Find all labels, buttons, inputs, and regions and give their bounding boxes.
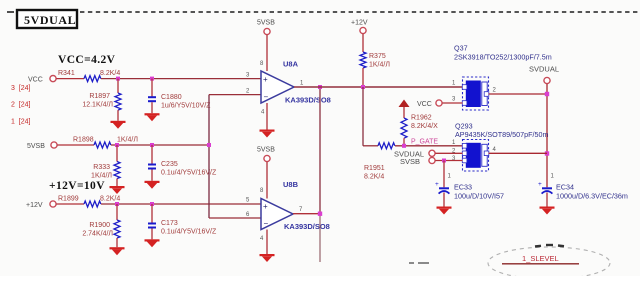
- svg-text:+: +: [538, 181, 542, 188]
- node bus top junction: [318, 85, 322, 89]
- node C235 junction: [150, 143, 154, 147]
- svg-text:100u/D/10V/I57: 100u/D/10V/I57: [454, 192, 504, 201]
- svg-text:R375: R375: [369, 53, 386, 60]
- op-amp U8A: [261, 60, 331, 105]
- svg-text:R1899: R1899: [58, 196, 79, 203]
- svg-text:P_GATE: P_GATE: [411, 139, 438, 146]
- wire row3 to U8B pin5: [101, 203, 261, 205]
- svg-text:R1900: R1900: [89, 222, 110, 229]
- resistor R375: [360, 34, 390, 87]
- svg-text:12.1K/4/Л: 12.1K/4/Л: [82, 102, 113, 109]
- svg-text:C235: C235: [161, 161, 178, 168]
- capacitor EC33: [435, 161, 504, 207]
- wire U8B pin6: [209, 217, 261, 219]
- transistor Q293: [455, 122, 549, 172]
- port SVDUAL: [529, 65, 559, 84]
- dashed highlight ellipse: [488, 247, 610, 279]
- wire stub going off sheet bottom: [319, 214, 321, 262]
- svg-text:1K/4/Л: 1K/4/Л: [117, 137, 138, 144]
- resistor R1900: [82, 204, 120, 247]
- wire U8B pin7 output: [293, 213, 320, 215]
- wire VCC row to U8A pin3: [101, 78, 261, 80]
- svg-text:+: +: [263, 75, 268, 84]
- wire U8A pin2: [209, 94, 261, 96]
- wire Q293 pin4: [489, 152, 548, 154]
- wire Q37 pin2 to SVDUAL: [489, 93, 548, 95]
- svg-text:−: −: [264, 93, 269, 102]
- node R1897 junction: [116, 77, 120, 81]
- svg-text:−: −: [264, 219, 269, 228]
- resistor R1899: [58, 196, 120, 208]
- ground below R1900: [110, 247, 125, 249]
- node C173 junction: [150, 202, 154, 206]
- svg-text:+12V: +12V: [351, 20, 368, 27]
- capacitor C235: [148, 145, 217, 181]
- wire SVDUAL vertical: [546, 84, 548, 188]
- node C1880 junction: [150, 77, 154, 81]
- wire U8B pin4: [266, 230, 268, 255]
- svg-text:8.2K/4/X: 8.2K/4/X: [411, 123, 438, 130]
- svg-text:0.1u/4/Y5V/16V/Z: 0.1u/4/Y5V/16V/Z: [161, 229, 217, 236]
- svg-text:R1951: R1951: [364, 165, 385, 172]
- svg-text:5VSB: 5VSB: [257, 20, 275, 27]
- port +12V (row 3): [26, 201, 56, 209]
- svg-text:C173: C173: [161, 220, 178, 227]
- svg-text:VCC: VCC: [28, 77, 43, 84]
- wire output bus vertical x=320: [319, 87, 321, 214]
- wire P_GATE segment: [363, 145, 378, 147]
- wire comparator output line to Q37: [294, 86, 463, 88]
- svg-text:1K/4/Л: 1K/4/Л: [91, 173, 112, 180]
- wire U8B pin8 supply: [266, 162, 268, 199]
- capacitor EC34: [538, 174, 628, 207]
- ground below EC34: [540, 207, 555, 209]
- svg-text:1K/4/Л: 1K/4/Л: [369, 62, 390, 69]
- wire row2 to vertical: [111, 144, 209, 146]
- title box 5VDUAL: [17, 10, 77, 28]
- svg-text:U8A: U8A: [283, 60, 299, 69]
- ground below C235: [145, 181, 160, 183]
- svg-text:R1962: R1962: [411, 115, 432, 122]
- resistor R1962: [401, 115, 438, 146]
- transistor Q37: [454, 44, 552, 111]
- resistor R1898: [73, 137, 138, 149]
- port 5VSB (row 2): [27, 142, 57, 150]
- bold dashes on ellipse top: [535, 245, 564, 247]
- svg-text:8.2K/4: 8.2K/4: [100, 196, 120, 203]
- ground below C173: [145, 239, 160, 241]
- svg-text:8.2K/4: 8.2K/4: [364, 174, 384, 181]
- wire SVSB to Q293 pin3: [435, 160, 462, 162]
- node U8B output junction: [318, 212, 322, 216]
- svg-text:+12V=10V: +12V=10V: [49, 180, 105, 192]
- stray watermark marks bottom middle: [409, 262, 429, 264]
- svg-text:R1897: R1897: [89, 93, 110, 100]
- svg-text:KA393D/SO8: KA393D/SO8: [284, 222, 330, 231]
- svg-text:8.2K/4: 8.2K/4: [100, 70, 120, 77]
- svg-text:3 [24]: 3 [24]: [11, 85, 31, 92]
- svg-text:EC34: EC34: [556, 183, 574, 192]
- svg-text:SVSB: SVSB: [400, 157, 420, 166]
- port VCC at Q37 pin3: [417, 100, 442, 108]
- svg-text:R341: R341: [58, 70, 75, 77]
- port SVSB at Q293 pin3: [400, 157, 435, 166]
- wire +12V row: [56, 203, 84, 205]
- svg-text:+: +: [263, 202, 268, 211]
- port +12V above R375: [351, 20, 368, 34]
- wire SVDUAL to Q293 pin2: [435, 152, 462, 154]
- wire vertical x=363 to P_GATE line: [362, 87, 364, 146]
- svg-text:2.74K/4/Л: 2.74K/4/Л: [82, 231, 113, 238]
- svg-text:SVDUAL: SVDUAL: [529, 65, 559, 74]
- svg-text:+: +: [435, 181, 439, 188]
- svg-text:5VSB: 5VSB: [257, 147, 275, 154]
- svg-text:AP9435K/SOT89/507pF/50m: AP9435K/SOT89/507pF/50m: [455, 130, 549, 139]
- node SVDUAL/Q37 junction: [545, 92, 549, 96]
- node SVDUAL/Q293 junction: [545, 151, 549, 155]
- ground below R333: [110, 186, 125, 188]
- svg-text:1000u/D/6.3V/EC/36m: 1000u/D/6.3V/EC/36m: [556, 192, 628, 201]
- wire U8A pin8 supply: [266, 35, 268, 71]
- op-amp U8B: [261, 180, 330, 231]
- ground below R1897: [111, 121, 126, 123]
- svg-text:KA393D/SO8: KA393D/SO8: [285, 96, 331, 105]
- wire VCC row: [56, 78, 84, 80]
- svg-text:5VDUAL: 5VDUAL: [24, 13, 76, 27]
- svg-text:U8B: U8B: [283, 180, 299, 189]
- svg-text:R333: R333: [93, 164, 110, 171]
- ground below U8A: [260, 130, 275, 132]
- node row2/vertical junction: [207, 143, 211, 147]
- resistor R1897: [82, 79, 121, 121]
- svg-text:2SK3918/TO252/1300pF/7.5m: 2SK3918/TO252/1300pF/7.5m: [454, 53, 552, 62]
- svg-text:1_SLEVEL: 1_SLEVEL: [522, 254, 559, 263]
- port 5VSB above U8B: [257, 147, 275, 162]
- resistor R1951: [364, 143, 395, 181]
- port 5VSB above U8A: [257, 20, 275, 35]
- svg-text:C1880: C1880: [161, 94, 182, 101]
- resistor R333: [91, 145, 120, 186]
- port SVDUAL at Q293 pin2: [394, 149, 435, 158]
- sheet top dashed border: [7, 11, 638, 13]
- svg-text:2 [24]: 2 [24]: [11, 102, 31, 109]
- node R375 bottom junction: [361, 85, 365, 89]
- ground below EC33: [437, 207, 452, 209]
- svg-text:1u/6/Y5V/10V/Z: 1u/6/Y5V/10V/Z: [161, 103, 211, 110]
- svg-text:Q37: Q37: [454, 44, 468, 53]
- node EC33 junction: [442, 159, 446, 163]
- underline 1_SLEVEL: [502, 263, 579, 265]
- resistor R341: [58, 70, 120, 82]
- ground below C1880: [145, 113, 160, 115]
- svg-text:VCC: VCC: [417, 101, 432, 108]
- wire feedback vertical x=209: [208, 95, 210, 218]
- node R1900 junction: [115, 202, 119, 206]
- wire U8A pin4: [266, 103, 268, 130]
- node R1962/P_GATE junction: [402, 144, 406, 148]
- wire P_GATE to Q293 pin1: [395, 145, 463, 147]
- svg-text:5VSB: 5VSB: [27, 143, 45, 150]
- ground below U8B: [260, 254, 275, 256]
- svg-text:VCC=4.2V: VCC=4.2V: [58, 54, 116, 66]
- svg-text:+12V: +12V: [26, 202, 43, 209]
- capacitor C1880: [148, 79, 211, 114]
- port VCC (row 1): [28, 76, 56, 84]
- node R333 junction: [115, 143, 119, 147]
- svg-text:EC33: EC33: [454, 183, 472, 192]
- svg-text:R1898: R1898: [73, 137, 94, 144]
- wire VCC to Q37 pin3: [442, 102, 462, 104]
- capacitor C173: [148, 204, 217, 239]
- power arrow VCC above R1962: [399, 100, 410, 119]
- svg-text:1 [24]: 1 [24]: [11, 119, 31, 126]
- wire 5VSB row: [57, 144, 94, 146]
